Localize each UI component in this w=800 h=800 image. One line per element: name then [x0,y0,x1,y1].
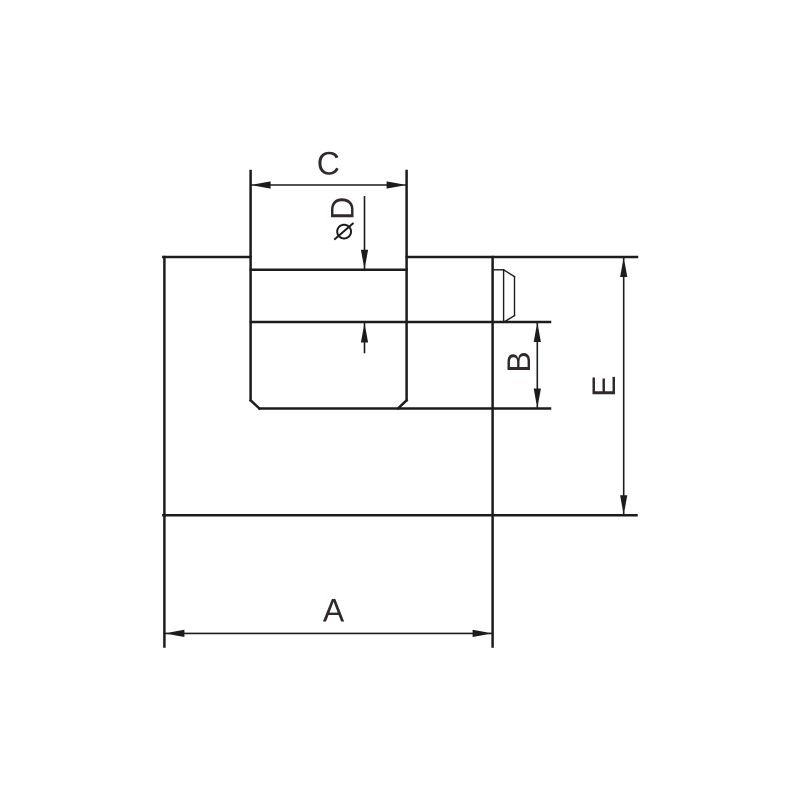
shackle bottom-left chamfer [251,400,260,408]
arrowhead E up [620,257,627,277]
shackle tip left vertical [503,270,505,322]
arrowhead C left [251,181,271,188]
body left edge (extends down as A extension line) [163,257,166,647]
diameter symbol circle [337,225,351,239]
arrowhead D up (tip on lower bore line) [361,323,368,343]
shackle bore upper line [251,269,407,272]
shackle bottom edge (extends right as B extension line) [259,407,550,410]
arrowhead A left [164,630,184,637]
arrowhead A right [473,630,493,637]
dimension line B [536,322,538,409]
arrowhead B down [534,389,541,409]
arrowhead C right [387,181,407,188]
shackle tip bottom chamfer [504,316,515,322]
svg-text:A: A [323,593,345,629]
shackle left vertical (extends up as C extension line) [249,171,252,400]
dimension line A [164,632,492,634]
dimension leader D lower [364,323,366,353]
arrowhead E down [620,495,627,515]
body top edge left segment [163,256,250,259]
svg-text:C: C [317,145,340,181]
dimension line E [623,257,625,515]
shackle right vertical (extends up as C extension line) [405,171,408,400]
body right edge (extends down as A extension line) [491,257,494,647]
shackle bore lower line (extends right as B extension line) [251,321,550,324]
shackle bottom-right chamfer [398,400,407,408]
shackle tip top chamfer [504,270,515,277]
svg-text:E: E [586,376,622,397]
dimension line C [251,184,407,186]
body top edge right segment (extends right as E extension line) [407,256,637,259]
shackle tip stub top line [493,269,504,271]
dimension leader D upper [364,197,366,270]
body bottom edge (extends right as E extension line) [163,514,636,517]
svg-text:D: D [324,197,360,220]
diameter symbol slash [335,224,353,239]
shackle tip right vertical [514,277,516,316]
arrowhead B up [534,322,541,342]
arrowhead D down (tip on upper bore line) [361,250,368,270]
svg-text:B: B [501,351,537,372]
